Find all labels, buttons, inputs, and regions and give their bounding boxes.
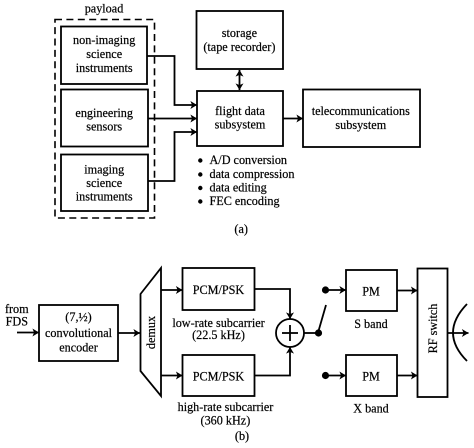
wire non-imaging to flight data <box>147 56 197 105</box>
svg-text:A/D conversion: A/D conversion <box>210 153 288 167</box>
bullet data compression <box>198 167 294 181</box>
block PM X band <box>346 355 397 396</box>
wire RF switch output to antenna <box>448 332 469 334</box>
svg-text:instruments: instruments <box>76 61 133 75</box>
svg-text:subsystem: subsystem <box>215 118 266 132</box>
wire lower contact to PM X band <box>329 375 346 377</box>
label high-rate subcarrier (360 kHz) <box>178 400 274 428</box>
label low-rate subcarrier (22.5 kHz) <box>172 316 264 342</box>
svg-text:telecommunications: telecommunications <box>312 104 410 118</box>
switch pivot node <box>315 329 322 336</box>
wire demux to PCM/PSK high-rate <box>161 375 183 377</box>
svg-text:science: science <box>86 176 122 190</box>
svg-text:convolutional: convolutional <box>45 326 113 340</box>
block telecommunications subsystem <box>303 90 420 148</box>
wire storage to flight data (double arrow) <box>239 70 241 90</box>
wire summer to switch pivot <box>304 332 319 334</box>
block imaging science instruments <box>61 155 148 212</box>
wire imaging to flight data <box>148 132 197 181</box>
svg-text:FEC encoding: FEC encoding <box>210 194 280 208</box>
svg-text:instruments: instruments <box>76 190 133 204</box>
svg-text:demux: demux <box>144 316 158 349</box>
svg-text:(tape recorder): (tape recorder) <box>203 40 275 54</box>
svg-text:high-rate subcarrier: high-rate subcarrier <box>178 400 274 414</box>
svg-text:PCM/PSK: PCM/PSK <box>193 370 245 384</box>
svg-text:(360 kHz): (360 kHz) <box>201 414 251 428</box>
wire engineering to flight data <box>148 118 197 120</box>
block RF switch <box>418 269 448 398</box>
svg-text:payload: payload <box>85 1 124 15</box>
demux <box>141 268 162 396</box>
svg-text:PM: PM <box>362 284 380 298</box>
switch lower contact node <box>322 372 329 379</box>
svg-text:sensors: sensors <box>86 120 122 134</box>
switch upper contact node <box>322 286 329 293</box>
wire demux to PCM/PSK low-rate <box>161 289 183 291</box>
wire FDS to encoder <box>17 332 39 334</box>
switch lever <box>319 305 327 331</box>
block flight data subsystem <box>197 91 283 146</box>
svg-text:X band: X band <box>353 402 389 416</box>
wire upper contact to PM S band <box>329 289 346 291</box>
bullet FEC encoding <box>198 194 279 208</box>
wire flight data to telecommunications <box>283 118 303 120</box>
wire PCM/PSK high-rate to summer <box>255 347 291 376</box>
bullet data editing <box>198 181 267 195</box>
label from FDS <box>5 302 29 329</box>
block PCM/PSK high-rate <box>183 355 255 396</box>
antenna arc <box>453 304 467 361</box>
svg-text:subsystem: subsystem <box>335 118 386 132</box>
svg-text:engineering: engineering <box>75 106 133 120</box>
block storage (tape recorder) <box>197 11 284 69</box>
wire PM X band to RF switch <box>397 375 418 377</box>
svg-text:S band: S band <box>354 317 388 331</box>
summer (adder) <box>276 319 304 347</box>
payload dashed box <box>55 20 155 219</box>
svg-text:(7,½): (7,½) <box>65 310 91 324</box>
svg-text:FDS: FDS <box>6 315 29 329</box>
block engineering sensors <box>61 90 148 147</box>
block convolutional encoder U1 <box>39 305 118 361</box>
block PCM/PSK low-rate <box>183 268 255 310</box>
svg-text:encoder: encoder <box>59 340 98 354</box>
svg-text:data editing: data editing <box>210 181 267 195</box>
svg-text:PM: PM <box>362 370 380 384</box>
svg-text:RF switch: RF switch <box>426 304 440 354</box>
svg-text:(b): (b) <box>235 429 249 443</box>
svg-text:imaging: imaging <box>84 163 124 177</box>
svg-text:flight data: flight data <box>215 104 265 118</box>
wire PCM/PSK low-rate to summer <box>255 289 291 319</box>
svg-text:(a): (a) <box>234 222 248 236</box>
block non-imaging science instruments <box>61 27 147 85</box>
wire encoder to demux <box>118 332 140 334</box>
bullet A/D conversion <box>198 153 287 167</box>
block PM S band <box>346 270 397 311</box>
svg-text:storage: storage <box>222 26 257 40</box>
svg-text:science: science <box>86 47 122 61</box>
svg-text:(22.5 kHz): (22.5 kHz) <box>192 328 245 342</box>
svg-text:data compression: data compression <box>210 167 295 181</box>
svg-text:non-imaging: non-imaging <box>73 33 135 47</box>
svg-text:PCM/PSK: PCM/PSK <box>193 283 245 297</box>
wire PM S band to RF switch <box>397 290 418 292</box>
